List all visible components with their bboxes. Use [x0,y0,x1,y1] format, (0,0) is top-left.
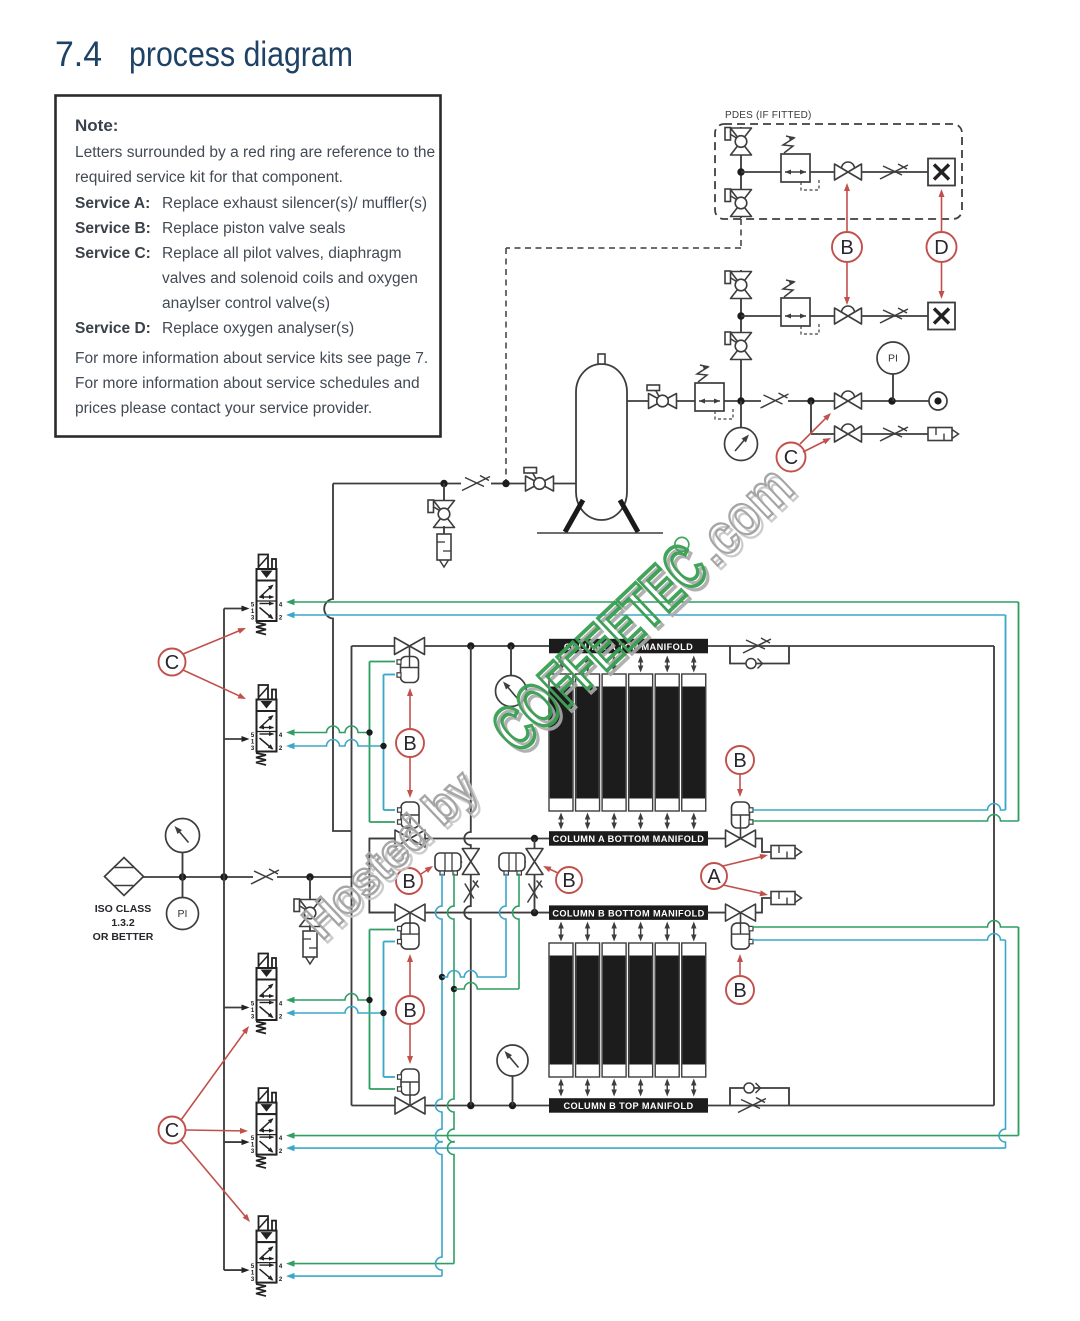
svg-text:Replace exhaust silencer(s)/ m: Replace exhaust silencer(s)/ muffler(s) [162,195,427,212]
red arrow B to purge valve 2 [549,869,558,873]
red arrow C to V5 [181,1140,245,1217]
gauge inlet [182,853,184,878]
pilot line blue V1 [286,612,295,618]
wire B bottom exhaust [708,912,726,914]
red arrow C to product valve [800,418,826,444]
ball valve inlet drain [300,900,321,927]
pilot line blue V4 [286,1145,295,1151]
wire feed stub V2 [224,738,242,740]
gauge column A [510,646,512,676]
ball valve tank feed [526,476,554,491]
pilot line blue V2 [286,743,295,749]
wire feed stub V5 [224,1269,242,1271]
receiver tank [576,364,627,520]
exhaust valve column B (actuated) [726,904,756,921]
svg-text:Service A:: Service A: [75,195,150,212]
wire feed stub V3 [224,1007,242,1009]
svg-text:prices please contact your ser: prices please contact your service provi… [75,400,372,417]
wire column B bottom [369,912,395,914]
svg-text:PDES (IF FITTED): PDES (IF FITTED) [725,110,812,121]
service circle D (top) [927,232,957,262]
wire inlet drain [309,877,311,901]
feed valve column A bottom (actuated) [395,830,425,847]
svg-text:B: B [840,237,853,259]
service circle C (upper left) [159,649,186,676]
wire PDES row [741,171,782,173]
ball valve PDES bottom [731,190,752,217]
muffler analyser [928,428,952,441]
wire feed stub V1 [224,608,242,610]
svg-text:B: B [403,733,416,755]
check valve A top bypass [746,659,756,669]
wire drain drop [443,484,445,503]
svg-text:A: A [707,866,721,888]
PDES dashed enclosure [715,124,962,219]
pilot line blue V5 [286,1273,295,1279]
svg-text:B: B [733,980,746,1002]
red arrow C to V4 [186,1129,241,1132]
flow arrows column B top [560,1084,562,1092]
svg-text:Replace all pilot valves, diap: Replace all pilot valves, diaphragm [162,245,402,262]
node inlet gauge tee [179,873,186,880]
column A bottom manifold bar [549,831,708,846]
node green V5 branch [451,986,457,992]
PI gauge product [892,374,894,401]
node blue V3 [380,1010,386,1016]
node B top gauge tee [509,1102,516,1109]
wire tank outlet [627,400,648,402]
pilot line green V1 [286,599,295,605]
red arrow C to V1 [183,631,240,654]
node A top purge tee [467,642,474,649]
muffler inlet drain [309,925,311,931]
service circle B (top) [832,232,862,262]
pilot line green V2 [286,729,295,735]
solenoid pilot valve V3 (service C) [259,954,269,969]
svg-text:B: B [733,750,746,772]
wire A top to bypass [708,645,994,647]
muffler exhaust A1 (service A) [771,846,795,859]
svg-text:For more information about ser: For more information about service kits … [75,350,428,367]
node B bottom equal tee [531,909,538,916]
diaphragm valve product (service C) [835,393,862,409]
svg-text:Service C:: Service C: [75,245,151,262]
adsorber columns bank A [549,674,573,811]
svg-text:C: C [784,447,798,469]
ball valve drain [434,501,455,528]
solenoid pilot valve V5 (service C) [259,1216,269,1231]
red arrow B down to A-bottom actuator [409,758,411,791]
node PDES junction [737,168,744,175]
wire A top bypass loop [730,646,789,664]
red arrow C to analyser valve [803,441,825,452]
column B bottom manifold bar [549,905,708,920]
service circle A [701,863,727,889]
service circle B (B bottom mid) [396,996,424,1024]
svg-text:C: C [165,1120,179,1142]
svg-text:PI: PI [888,353,898,365]
svg-text:COLUMN B BOTTOM MANIFOLD: COLUMN B BOTTOM MANIFOLD [552,908,704,918]
pilot line green V4 b [1018,927,1020,1136]
svg-text:Service B:: Service B: [75,220,151,237]
svg-text:Replace piston valve seals: Replace piston valve seals [162,220,346,237]
node B top purge tee [467,1102,474,1109]
wire B top to bypass [708,1105,995,1107]
restrictor row2 [880,309,908,323]
pilot solenoid box 1 [435,853,461,871]
flow arrows column B bottom [560,927,562,937]
purge valve 2 (pilot bowtie) [526,849,543,875]
wire tank feed [554,483,576,485]
pilot line blue V5 riser [436,874,443,1277]
node product junctions [737,397,744,404]
restrictor tank feed [462,477,490,491]
wire A bottom exhaust [708,838,726,840]
pilot branch blue to box2 [442,971,506,978]
wire inlet main [143,876,253,878]
svg-text:Note:: Note: [75,116,118,135]
note box with service kit legend [56,96,441,437]
node dashed tie-in [502,480,509,487]
solenoid pilot valve V1 (service C) [259,555,269,570]
node blue V5 branch [439,974,445,980]
svg-text:COLUMN A BOTTOM MANIFOLD: COLUMN A BOTTOM MANIFOLD [553,834,705,844]
wire equalisation loop [369,839,395,913]
node blue V2 [380,743,386,749]
pilot line green V5 riser [448,874,455,1264]
svg-text:C: C [165,652,179,674]
service circle B (centre right) [556,867,582,893]
pilot line green V4 [286,1132,295,1138]
red arrow B down to B-top actuator [409,1025,411,1057]
red arrow B up to B-exhaust actuator [739,961,741,975]
pilot branch green to box2 [454,983,519,989]
pilot line green V5 [286,1260,295,1266]
wire purge centre leg [464,646,470,1106]
node green V3 [366,997,372,1003]
wire pilot feed bus [223,609,225,1271]
check valve B top bypass [744,1083,754,1093]
gauge column B [512,1076,514,1106]
service circle B (B exhaust) [726,976,754,1004]
watermark hosted by coffeetec.com [286,452,810,954]
wire B top bypass loop [730,1088,789,1106]
restrictor PDES [880,165,908,179]
restrictor inlet [251,870,279,884]
node pilot feed tee [220,873,227,880]
PI gauge inlet [182,877,184,898]
feed valve column A top (actuated) [395,638,425,655]
red arrow B down to A-exhaust actuator [739,775,741,790]
gauge product [740,401,742,428]
node green V2 [366,729,372,735]
wire row2 vertical [740,270,742,401]
wire PDES vertical header [740,127,742,218]
svg-text:valves and solenoid coils and: valves and solenoid coils and oxygen [162,270,418,287]
service circle B (A exhaust) [726,746,754,774]
red arrow B to row2 valve [846,263,848,298]
svg-text:7.4: 7.4 [55,35,102,74]
diaphragm valve analyser (service C) [835,426,862,442]
svg-text:Letters surrounded by a red ri: Letters surrounded by a red ring are ref… [75,144,435,161]
ball valve row2 bottom [731,333,752,360]
service circle C (lower left) [159,1117,186,1144]
red arrow D to PDES xbox [941,196,943,231]
dashed leader from PDES to main line [740,219,742,248]
restrictor B top bypass [738,1099,766,1113]
adsorber columns bank B [549,943,573,1077]
service circle B (A top) [396,729,424,757]
muffler exhaust A2 (service A) [771,892,795,905]
svg-text:anaylser control valve(s): anaylser control valve(s) [162,295,330,312]
wire feed stub V4 [224,1141,242,1143]
regulator row2 [781,298,810,326]
wire column A bottom [369,838,395,840]
svg-text:Replace oxygen analyser(s): Replace oxygen analyser(s) [162,320,354,337]
red arrow A to muffler 2 [723,885,761,893]
solenoid pilot valve V4 (service C) [259,1088,269,1103]
wire feed riser x333 [324,484,351,832]
red arrow B to PDES valve [846,190,848,231]
red arrow C to V2 [183,670,240,696]
svg-text:For more information about ser: For more information about service sched… [75,375,420,392]
solenoid exhaust box PDES (service D) [928,159,955,186]
flow arrows column A bottom [560,818,562,825]
svg-text:B: B [403,1000,416,1022]
purge valve 1 (pilot bowtie) [462,849,479,875]
regulator PDES [781,154,810,182]
diaphragm valve PDES (service B) [835,164,862,180]
red arrow B to pilot box 1 [421,870,427,874]
wire feed riser x351 [351,646,353,1106]
column A top manifold bar [549,639,708,654]
red arrow A to muffler 1 [723,857,761,866]
restrictor product line [761,394,789,408]
node A top gauge tee [507,642,514,649]
wire purge right leg [993,646,995,1106]
outlet port [929,392,947,410]
svg-text:Service D:: Service D: [75,320,151,337]
air filter inlet [105,858,144,896]
node row2 junction [737,312,744,319]
restrictor A top bypass [743,639,771,653]
diaphragm valve row2 (service B) [835,308,862,324]
svg-text:COLUMN B TOP MANIFOLD: COLUMN B TOP MANIFOLD [563,1101,693,1111]
service circle C (right) [777,443,806,472]
red arrow B up to B-bottom actuator [409,961,411,995]
svg-text:required service kit for that: required service kit for that component. [75,169,343,186]
pilot solenoid box 2 [499,853,525,871]
restrictor purge 2 [528,881,542,903]
svg-text:ISO CLASS: ISO CLASS [95,903,152,915]
wire column B top feed [352,1105,396,1107]
wire product line [724,400,761,402]
svg-text:PI: PI [178,908,188,920]
node inlet drain tee [306,873,313,880]
wire column A top feed [352,645,395,647]
wire analyser branch [810,401,812,434]
svg-text:B: B [562,870,575,892]
red arrow D to row2 xbox [941,263,943,292]
column B top manifold bar [549,1098,708,1113]
flow arrows column A top [560,661,562,668]
wire drain to muffler [443,526,445,534]
ball valve tank outlet [649,394,677,409]
node A bottom equal tee [531,835,538,842]
feed valve column B top (actuated) [395,1097,425,1114]
service circle B (centre left) [396,868,422,894]
solenoid exhaust box row2 (service D) [928,303,955,330]
restrictor analyser [880,427,908,441]
red arrow C to V3 [181,1032,245,1120]
solenoid pilot valve V2 (service C) [259,685,269,700]
svg-text:D: D [934,237,948,259]
ball valve PDES top [731,128,752,155]
exhaust valve column A (actuated) [726,830,756,847]
wire equalisation centre leg [534,839,536,913]
pilot line green V3 [286,997,295,1003]
svg-text:process diagram: process diagram [129,35,353,74]
feed valve column B bottom (actuated) [395,904,425,921]
restrictor purge 1 [464,881,478,903]
wire row2 [741,315,782,317]
pilot line blue V3 [286,1010,295,1016]
node drain tee [440,480,447,487]
svg-text:1.3.2: 1.3.2 [111,917,135,929]
ball valve row2 top [731,272,752,299]
svg-text:OR BETTER: OR BETTER [93,931,154,943]
regulator main [695,383,724,411]
red arrow B up to A-top actuator [409,695,411,728]
muffler drain [437,534,451,560]
